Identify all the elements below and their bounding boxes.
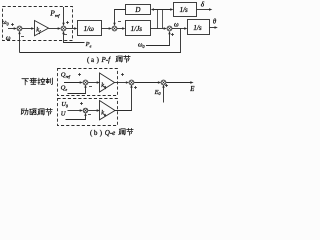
- svg-text:ω: ω: [6, 35, 11, 42]
- svg-text:E: E: [189, 86, 195, 93]
- svg-text:1/ω: 1/ω: [84, 25, 94, 33]
- svg-text:): ): [97, 57, 99, 64]
- svg-text:b: b: [94, 130, 98, 137]
- svg-text:a: a: [91, 57, 94, 64]
- svg-text:Q-e: Q-e: [105, 129, 116, 137]
- svg-text:1/s: 1/s: [193, 24, 201, 32]
- svg-text:D: D: [134, 6, 140, 14]
- svg-text:ω: ω: [174, 21, 179, 28]
- svg-text:): ): [100, 130, 102, 137]
- svg-text:P-f: P-f: [101, 56, 112, 64]
- svg-text:1/s: 1/s: [180, 6, 188, 14]
- svg-text:Js: Js: [136, 25, 142, 33]
